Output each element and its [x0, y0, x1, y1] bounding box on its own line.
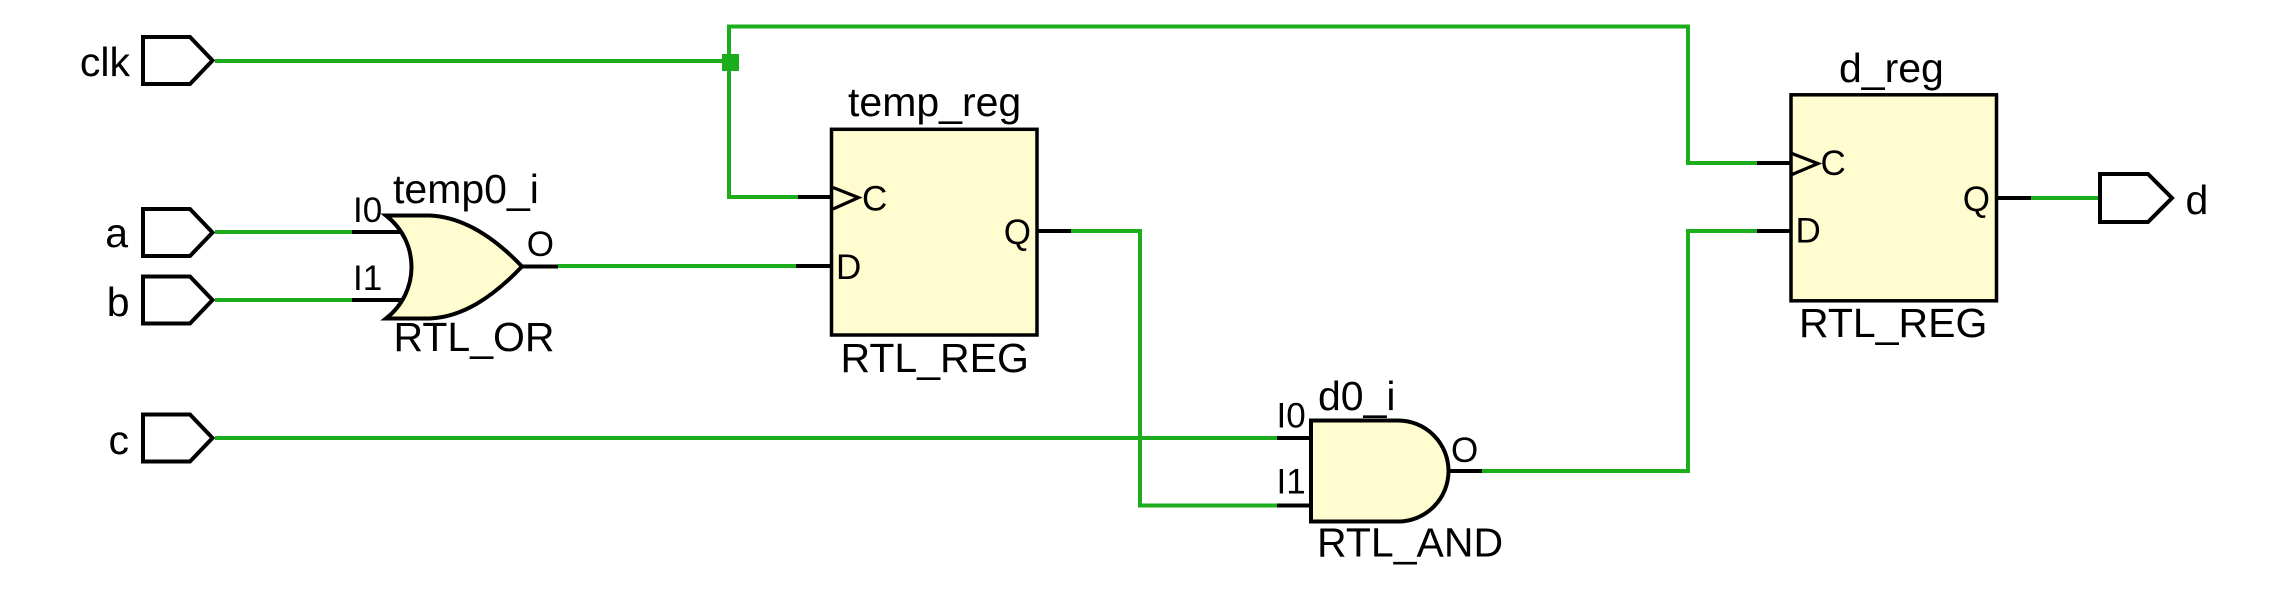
svg-text:d0_i: d0_i: [1318, 373, 1396, 419]
svg-text:temp_reg: temp_reg: [848, 79, 1021, 125]
svg-text:I0: I0: [1277, 397, 1306, 436]
svg-text:Q: Q: [1963, 180, 1990, 219]
svg-text:RTL_REG: RTL_REG: [1799, 300, 1987, 346]
svg-text:RTL_REG: RTL_REG: [841, 335, 1029, 381]
svg-text:d: d: [2186, 177, 2209, 223]
svg-text:I1: I1: [353, 259, 382, 298]
svg-text:I1: I1: [1277, 463, 1306, 502]
svg-text:C: C: [862, 180, 887, 219]
svg-text:Q: Q: [1004, 213, 1031, 252]
svg-text:clk: clk: [80, 39, 131, 85]
svg-text:I0: I0: [353, 191, 382, 230]
svg-text:D: D: [836, 248, 861, 287]
svg-text:c: c: [109, 417, 130, 463]
svg-text:b: b: [107, 279, 130, 325]
svg-text:temp0_i: temp0_i: [393, 166, 539, 212]
svg-text:O: O: [1451, 431, 1478, 470]
svg-text:C: C: [1821, 144, 1846, 183]
svg-text:a: a: [105, 210, 128, 256]
svg-text:RTL_AND: RTL_AND: [1317, 520, 1503, 566]
svg-text:D: D: [1796, 212, 1821, 251]
svg-text:d_reg: d_reg: [1839, 45, 1944, 91]
svg-text:O: O: [527, 225, 554, 264]
svg-text:RTL_OR: RTL_OR: [394, 314, 555, 360]
